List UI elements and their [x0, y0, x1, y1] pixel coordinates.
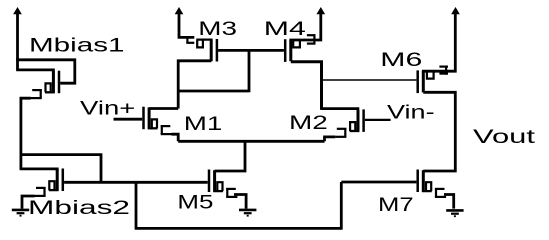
- wire M2 gate lead to Vin-: [365, 119, 391, 121]
- wire M5 source to ground: [234, 195, 246, 209]
- wire M6 gate tap: [322, 79, 417, 81]
- svg-text:M3: M3: [198, 19, 237, 40]
- wire M4 drain to M2 drain: [322, 109, 358, 112]
- wire Mbias2 drain jog: [20, 169, 58, 171]
- svg-text:Vin+: Vin+: [80, 98, 135, 119]
- wire M6 source to VDD: [422, 12, 455, 71]
- ground at Mbias2: [12, 210, 29, 216]
- svg-text:Vout: Vout: [473, 127, 536, 148]
- wire Mbias1 source to Mbias2 drain rail: [21, 98, 31, 169]
- svg-text:M4: M4: [264, 19, 307, 40]
- transistor M2: [335, 109, 363, 136]
- transistor M5: [209, 170, 237, 197]
- wire M7 gate lead: [341, 181, 416, 184]
- svg-text:M2: M2: [289, 113, 328, 134]
- transistor M1: [144, 107, 172, 134]
- transistor Mbias1: [31, 71, 59, 98]
- wire M7 source to ground: [444, 195, 454, 209]
- wire M2 source to tail: [325, 137, 336, 141]
- wire M4 source to VDD: [289, 12, 320, 40]
- wire M3 drain lead down: [178, 59, 211, 108]
- wire M1 gate lead from Vin+: [114, 118, 143, 121]
- transistor M7: [418, 170, 446, 197]
- ground at M5: [239, 210, 256, 216]
- wire M3 drain to mirror gates: [178, 49, 249, 92]
- transistor M4: [285, 34, 315, 62]
- wire Mbias2 gate to M5 gate: [64, 181, 208, 184]
- wire M1 drain lead: [149, 107, 178, 110]
- svg-text:Vin-: Vin-: [387, 103, 435, 124]
- wire tail to M5 drain: [215, 141, 245, 171]
- svg-text:M7: M7: [378, 195, 414, 216]
- wire up to M7 gate: [340, 182, 343, 230]
- power arrow VDD M4: [316, 7, 325, 14]
- svg-text:M5: M5: [177, 193, 213, 214]
- wire bottom bias run: [135, 227, 342, 230]
- wire M3 M4 gate mirror: [218, 49, 284, 52]
- wire M1 source to tail: [172, 134, 179, 141]
- svg-text:Mbias2: Mbias2: [28, 198, 130, 219]
- wire Mbias1 diode top: [16, 60, 75, 83]
- wire M3 source to VDD: [179, 12, 194, 37]
- wire drop to bottom bias run: [135, 182, 138, 228]
- transistor M3: [186, 37, 217, 62]
- transistor M6: [418, 66, 448, 94]
- svg-text:Mbias1: Mbias1: [29, 36, 125, 57]
- power arrow VDD M3: [175, 7, 184, 14]
- wire M6 drain to Vout rail and M7 drain: [423, 92, 455, 171]
- transistor Mbias2: [34, 169, 62, 196]
- wire tail: [178, 140, 324, 143]
- wire M4 drain lead down: [291, 62, 322, 110]
- wire Mbias1 drain jog: [16, 70, 53, 73]
- svg-text:M6: M6: [380, 50, 422, 71]
- power arrow VDD M6: [451, 7, 460, 14]
- wire bias node tee: [21, 155, 101, 183]
- svg-text:M1: M1: [184, 114, 223, 135]
- wire Mbias2 source to ground: [22, 196, 35, 209]
- ground at M7: [446, 210, 463, 216]
- power arrow VDD left: [16, 12, 19, 70]
